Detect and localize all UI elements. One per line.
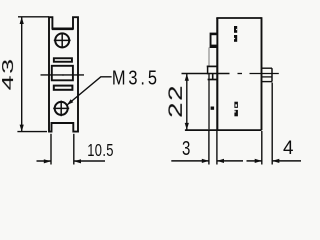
svg-text:10.5: 10.5 — [87, 141, 114, 161]
svg-text:22: 22 — [165, 84, 186, 118]
svg-text:4: 4 — [283, 138, 293, 159]
svg-text:M3.5: M3.5 — [112, 66, 160, 89]
svg-text:3: 3 — [182, 137, 190, 160]
svg-text:43: 43 — [0, 57, 17, 90]
